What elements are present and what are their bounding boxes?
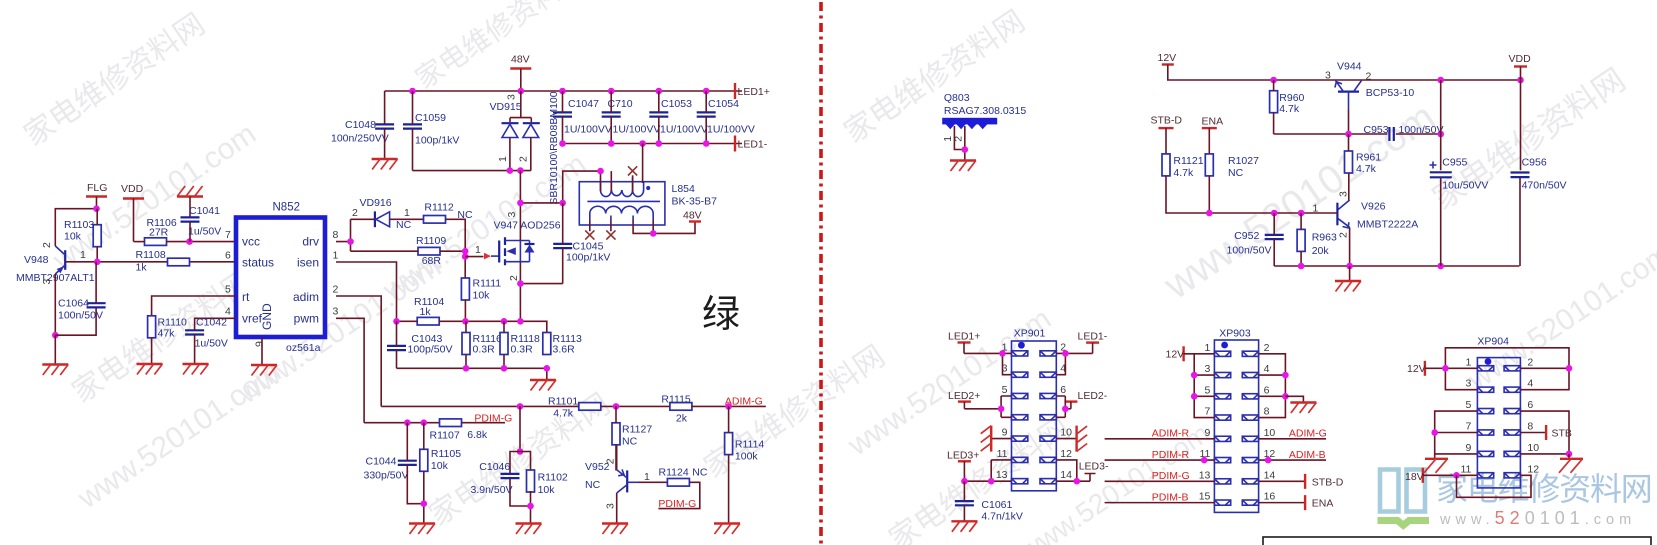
- svg-text:13: 13: [1199, 469, 1211, 481]
- node V948 base junction: [94, 259, 101, 266]
- capacitor C1059: [403, 112, 459, 147]
- svg-text:VDD: VDD: [121, 183, 144, 195]
- ground below V952: [602, 524, 628, 535]
- svg-text:12V: 12V: [1166, 349, 1185, 361]
- svg-text:5: 5: [225, 284, 231, 296]
- connector pin XP901-14: [1040, 479, 1056, 484]
- ground V926 emitter: [1335, 281, 1361, 292]
- dual diode VD915 (SBR10100): [490, 91, 540, 162]
- node C1044/R1105 bottom: [421, 500, 428, 507]
- wire C1054 stems: [705, 91, 707, 144]
- svg-text:C1044: C1044: [366, 456, 397, 468]
- svg-text:PDIM-R: PDIM-R: [1152, 449, 1190, 461]
- resistor R1115: [661, 394, 692, 425]
- capacitor C710: [602, 98, 661, 136]
- svg-text:STB: STB: [1552, 428, 1572, 440]
- svg-text:10: 10: [1264, 427, 1276, 439]
- svg-text:9: 9: [1002, 427, 1008, 439]
- 12V rail junctions: [1270, 77, 1524, 84]
- svg-text:V948: V948: [24, 254, 49, 266]
- svg-text:LED2+: LED2+: [948, 390, 980, 402]
- connector pin XP904-2: [1504, 366, 1520, 371]
- transistor V926 MMBT2222A (NPN): [1313, 191, 1419, 238]
- svg-text:R1115: R1115: [661, 394, 691, 406]
- port 12V (XP903): [1166, 346, 1185, 361]
- svg-text:2: 2: [333, 284, 339, 296]
- connector XP901 pin1 marker: [1018, 342, 1025, 349]
- svg-text:V947: V947: [494, 220, 519, 232]
- svg-text:4.7n/1kV: 4.7n/1kV: [981, 511, 1022, 523]
- connector pin XP901-6: [1040, 393, 1056, 398]
- svg-text:100p/1kV: 100p/1kV: [566, 252, 610, 264]
- svg-text:7: 7: [1205, 406, 1211, 418]
- svg-text:6: 6: [1264, 384, 1270, 396]
- connector pin XP901-8: [1040, 415, 1056, 420]
- power port 48V (transformer): [683, 210, 702, 222]
- svg-text:16: 16: [1264, 491, 1276, 503]
- svg-text:STB-D: STB-D: [1312, 476, 1344, 488]
- node ADIM-B dot: [1265, 457, 1272, 464]
- node primary return: [650, 230, 657, 237]
- svg-text:10k: 10k: [431, 460, 449, 472]
- connector pin XP903-15: [1214, 500, 1230, 505]
- wire N852 pin9 ground stem: [261, 337, 263, 364]
- capacitor C1042: [185, 317, 228, 350]
- svg-text:家电维修资料网: 家电维修资料网: [1436, 471, 1652, 507]
- connector pin XP903-2: [1242, 351, 1258, 356]
- power port 48V: [510, 54, 531, 92]
- resistor R1105: [420, 448, 461, 472]
- resistor R1121: [1162, 154, 1204, 179]
- svg-text:68R: 68R: [422, 255, 442, 267]
- svg-text:BK-35-B7: BK-35-B7: [672, 196, 718, 208]
- connector XP904 body: [1477, 336, 1520, 488]
- svg-text:LED3-: LED3-: [1079, 461, 1109, 473]
- node XP901 pin5/7: [998, 406, 1005, 413]
- wire C1048 stem: [384, 91, 386, 124]
- svg-text:N852: N852: [273, 202, 301, 214]
- port LED3+ (XP901): [947, 450, 979, 482]
- resistor R1112: [424, 202, 454, 224]
- svg-text:12: 12: [1060, 448, 1072, 460]
- svg-text:XP901: XP901: [1014, 328, 1046, 340]
- svg-text:STB-D: STB-D: [1151, 115, 1183, 127]
- node gate junctions: [462, 248, 469, 260]
- ground below C1048: [372, 159, 398, 170]
- wire primary-top node: [563, 171, 612, 203]
- connector pin XP904-3: [1477, 387, 1493, 392]
- svg-text:3: 3: [1338, 191, 1350, 197]
- svg-text:1U/100VV: 1U/100VV: [707, 124, 755, 136]
- capacitor C952: [1227, 230, 1284, 257]
- svg-text:R1114: R1114: [735, 439, 765, 451]
- node XP904 pin7: [1431, 429, 1438, 436]
- connector pin XP904-10: [1504, 451, 1520, 456]
- wire XP901 pin12/14: [1056, 460, 1095, 481]
- svg-text:V926: V926: [1361, 201, 1386, 213]
- resistor R961: [1345, 151, 1382, 175]
- wire VD915 bottom node: [413, 170, 531, 172]
- wire sense top row: [397, 321, 547, 332]
- wire XP904 18V to pin11: [1423, 474, 1478, 476]
- net wires XP903 right: [1259, 439, 1326, 460]
- inverted ground above C1041: [177, 186, 203, 197]
- connector pin XP903-1: [1214, 351, 1230, 356]
- capacitor C1054: [697, 98, 755, 136]
- wire V948 emitter down: [54, 274, 56, 335]
- svg-text:1U/100VV: 1U/100VV: [660, 124, 708, 136]
- svg-text:C1041: C1041: [189, 205, 220, 217]
- wire row A mid: [601, 405, 670, 407]
- connector XP901 body: [1012, 328, 1057, 491]
- port STB-D (XP903): [1305, 474, 1344, 489]
- connector pin XP903-13: [1214, 479, 1230, 484]
- wire XP903 to ground: [1285, 396, 1303, 402]
- svg-text:LED1-: LED1-: [738, 139, 768, 151]
- svg-text:3: 3: [604, 503, 616, 509]
- wire C1042 bottom stem: [194, 335, 196, 364]
- wire C1048 ground stem: [384, 129, 386, 159]
- svg-text:BCP53-10: BCP53-10: [1366, 87, 1415, 99]
- capacitor C953: [1364, 124, 1444, 141]
- svg-text:NC: NC: [1228, 167, 1244, 179]
- wire V947 source node: [520, 262, 562, 322]
- svg-text:6: 6: [1060, 384, 1066, 396]
- wire R1105 stems: [423, 423, 425, 523]
- connector pin XP904-4: [1504, 387, 1520, 392]
- connector pin XP903-12: [1242, 458, 1258, 463]
- svg-text:3.9n/50V: 3.9n/50V: [471, 484, 513, 496]
- node emitter-C1064 junction: [52, 332, 59, 339]
- wire XP903 pin16 to ENA: [1259, 502, 1306, 504]
- svg-text:VD916: VD916: [360, 197, 392, 209]
- svg-text:100p/50V: 100p/50V: [408, 344, 453, 356]
- resistor R1027: [1205, 154, 1259, 179]
- connector pin XP901-2: [1040, 351, 1056, 356]
- wire V926 emitter stem: [1349, 227, 1351, 266]
- svg-text:R1102: R1102: [538, 472, 568, 484]
- wire adim pin2 to row A: [336, 296, 578, 406]
- capacitor C1047: [553, 98, 612, 136]
- transistor V948 (PNP MMBT2907ALT1): [16, 242, 95, 285]
- svg-text:5: 5: [1002, 384, 1008, 396]
- connector pin XP904-1: [1477, 366, 1493, 371]
- wire R1118 stems: [503, 321, 505, 368]
- connector pin XP903-5: [1214, 394, 1230, 399]
- svg-text:12V: 12V: [1158, 52, 1177, 64]
- svg-text:2: 2: [1338, 232, 1350, 238]
- svg-text:1: 1: [497, 156, 509, 162]
- wire C1041 bottom stem: [189, 222, 191, 242]
- wire XP904 pins 5/7/9 tie: [1435, 411, 1478, 454]
- node XP901 pin1: [999, 350, 1006, 357]
- svg-text:L854: L854: [672, 183, 696, 195]
- pin numbers XP904: [1460, 356, 1539, 475]
- svg-text:3.6R: 3.6R: [553, 344, 576, 356]
- connector pin XP904-11: [1477, 473, 1493, 478]
- connector pin XP901-13: [1012, 479, 1028, 484]
- no-connect X bottom stem 1: [585, 230, 594, 239]
- svg-text:LED1+: LED1+: [738, 86, 770, 98]
- svg-text:100n/50V: 100n/50V: [1227, 245, 1272, 257]
- resistor R1103: [64, 219, 101, 247]
- wire VD915 anode stems: [510, 138, 531, 171]
- wire R1102 bottom stem: [530, 491, 532, 523]
- svg-text:C1048: C1048: [345, 119, 376, 131]
- wire V952 collector stem: [616, 493, 618, 523]
- wire R1106 to N852 pin7: [167, 241, 237, 243]
- power port FLG: [86, 182, 107, 209]
- power port ENA: [1202, 116, 1224, 154]
- svg-text:1U/100VV: 1U/100VV: [564, 124, 612, 136]
- top rail junctions: [409, 88, 709, 95]
- resistor R963: [1297, 229, 1337, 257]
- wire XP901 pin2/4: [1056, 353, 1092, 374]
- connector pin XP904-9: [1477, 451, 1493, 456]
- svg-text:LED1+: LED1+: [948, 331, 980, 343]
- transistor V952 (NC): [585, 458, 650, 509]
- node drain: [517, 200, 566, 207]
- node 18V: [1453, 472, 1460, 479]
- connector pin XP901-1: [1012, 351, 1028, 356]
- net wires XP903 left: [1105, 439, 1215, 503]
- svg-text:V944: V944: [1337, 61, 1362, 73]
- svg-text:PDIM-G: PDIM-G: [474, 413, 512, 425]
- node XP901 pin6/8: [1062, 406, 1069, 413]
- svg-text:R1027: R1027: [1228, 155, 1259, 167]
- logo green swoosh: [1378, 521, 1430, 526]
- svg-text:10k: 10k: [538, 484, 556, 496]
- connector pin XP903-16: [1242, 500, 1258, 505]
- connector pin XP903-6: [1242, 394, 1258, 399]
- power port VDD: [121, 183, 144, 242]
- svg-text:R961: R961: [1356, 152, 1381, 164]
- pin numbers XP903: [1199, 342, 1276, 503]
- svg-text:12: 12: [1527, 463, 1539, 475]
- svg-text:C1042: C1042: [196, 317, 227, 329]
- svg-text:C1061: C1061: [981, 499, 1012, 511]
- wire FLG node to V948 collector: [55, 209, 96, 246]
- row B junctions: [404, 419, 427, 426]
- svg-text:C1054: C1054: [708, 98, 739, 110]
- svg-text:LED1-: LED1-: [1078, 331, 1108, 343]
- svg-text:8: 8: [1527, 421, 1533, 433]
- no-connect X top tap: [628, 166, 637, 175]
- svg-text:C952: C952: [1234, 230, 1259, 242]
- wire C956 column: [1519, 80, 1522, 266]
- svg-text:1: 1: [404, 207, 410, 219]
- svg-text:AOD256: AOD256: [520, 220, 560, 232]
- op-amp/controller IC N852 (oz561a): [236, 202, 325, 355]
- capacitor C1045: [553, 241, 610, 264]
- wire XP904 pin12 loop: [1457, 475, 1532, 497]
- wire isen pin1 to sense row: [336, 262, 397, 321]
- svg-text:NC: NC: [585, 479, 601, 491]
- wire row B to PDIM-G: [462, 422, 506, 424]
- svg-text:0.3R: 0.3R: [473, 344, 496, 356]
- svg-text:ENA: ENA: [1312, 498, 1334, 510]
- wire V947 drain node: [520, 171, 562, 241]
- svg-text:VDD: VDD: [1509, 53, 1532, 65]
- wire R1109 left: [351, 250, 419, 252]
- port 18V (XP904): [1405, 468, 1424, 483]
- connector pin XP901-7: [1012, 415, 1028, 420]
- port LED1-: [735, 136, 768, 152]
- svg-text:ADIM-B: ADIM-B: [1289, 449, 1326, 461]
- row A junctions: [517, 403, 620, 410]
- wire R1111 bottom stem: [464, 300, 466, 321]
- wire C1061 stems: [963, 481, 965, 521]
- LED1- rail junctions: [559, 140, 709, 147]
- svg-text:XP903: XP903: [1219, 328, 1251, 340]
- wire row A to ADIM-G: [692, 405, 766, 407]
- svg-text:9: 9: [1466, 442, 1472, 454]
- svg-text:C956: C956: [1522, 157, 1547, 169]
- svg-text:1: 1: [1205, 342, 1211, 354]
- node Q803: [962, 146, 969, 153]
- svg-text:9: 9: [254, 341, 266, 347]
- svg-text:1: 1: [333, 250, 339, 262]
- resistor R1110: [148, 316, 187, 340]
- wire 12V rail: [1168, 65, 1521, 81]
- svg-text:PDIM-B: PDIM-B: [1152, 491, 1189, 503]
- node source: [517, 280, 524, 287]
- svg-text:3: 3: [506, 94, 518, 100]
- resistor R1118: [500, 333, 540, 356]
- bottom rail junctions: [1298, 263, 1444, 270]
- wire pin5 rt to R1110: [152, 296, 236, 316]
- wire V944 base stem: [1348, 110, 1350, 134]
- wire XP904 pin8 to STB: [1520, 432, 1546, 434]
- pin numbers XP901: [996, 341, 1072, 481]
- svg-text:2: 2: [1264, 342, 1270, 354]
- wire C1059 top stem: [412, 91, 414, 123]
- svg-text:6: 6: [1527, 399, 1533, 411]
- svg-text:R1111: R1111: [473, 278, 502, 290]
- svg-text:6: 6: [225, 250, 231, 262]
- svg-text:2: 2: [518, 156, 530, 162]
- node FLG junction: [93, 205, 100, 212]
- base row junctions: [1206, 210, 1304, 217]
- ground N852 pin9: [251, 365, 277, 376]
- port STB (XP904): [1546, 425, 1572, 440]
- svg-text:10k: 10k: [473, 290, 491, 302]
- wire R1112 to right node: [446, 219, 466, 278]
- wire XP904 right ground stem: [1568, 454, 1570, 459]
- svg-text:ADIM-G: ADIM-G: [1289, 428, 1327, 440]
- svg-text:vcc: vcc: [242, 235, 260, 249]
- svg-text:R1103: R1103: [64, 219, 94, 231]
- svg-text:LED3+: LED3+: [947, 450, 979, 462]
- node C1046 top: [517, 448, 524, 455]
- capacitor C1044: [364, 456, 417, 482]
- power port 12V: [1158, 52, 1177, 65]
- wire C1059 bottom stem: [412, 129, 414, 171]
- svg-text:2: 2: [604, 458, 616, 464]
- svg-text:4.7k: 4.7k: [1279, 103, 1300, 115]
- wire C1044 stems: [407, 423, 424, 504]
- wire R1109 right: [440, 250, 465, 252]
- svg-text:14: 14: [1264, 469, 1276, 481]
- svg-text:6.8k: 6.8k: [467, 429, 488, 441]
- port ENA (XP903): [1305, 495, 1333, 510]
- wire transformer pin to LED1- rail: [642, 144, 644, 184]
- svg-text:9: 9: [1205, 427, 1211, 439]
- svg-text:8: 8: [333, 229, 339, 241]
- svg-text:R1121: R1121: [1173, 155, 1203, 167]
- svg-text:10k: 10k: [64, 231, 82, 243]
- node vcc/C1041 junction: [186, 238, 193, 245]
- wire R1127 stems: [615, 406, 617, 470]
- svg-text:14: 14: [1060, 469, 1072, 481]
- title block frame bottom right: [1263, 537, 1651, 545]
- svg-text:Q803: Q803: [944, 92, 970, 104]
- svg-text:LED2-: LED2-: [1078, 390, 1108, 402]
- wire LED1- rail: [563, 143, 743, 145]
- wire base node row: [1166, 176, 1337, 213]
- wire C952 stems: [1273, 213, 1275, 266]
- svg-text:VD915: VD915: [490, 101, 522, 113]
- svg-text:3: 3: [333, 306, 339, 318]
- diode VD916: [351, 197, 425, 231]
- resistor R1114: [725, 433, 765, 463]
- wire bottom rail: [1274, 265, 1519, 267]
- svg-text:1k: 1k: [136, 262, 148, 274]
- ground below R1110: [137, 364, 163, 375]
- resistor R1101: [548, 396, 601, 420]
- svg-text:12V: 12V: [1407, 363, 1426, 375]
- svg-text:1: 1: [1466, 356, 1472, 368]
- wire row A down to C1046 node: [519, 406, 521, 451]
- wire XP901 pin10 to ground: [1056, 438, 1076, 440]
- no-connect X bottom stem 2: [606, 230, 615, 239]
- ground XP901 pin9 (rotated): [981, 426, 992, 452]
- svg-text:R1101: R1101: [548, 396, 578, 408]
- wire R960 stems: [1273, 80, 1275, 134]
- svg-text:1: 1: [644, 471, 650, 483]
- svg-text:R1105: R1105: [431, 448, 461, 460]
- capacitor C1053: [649, 98, 708, 136]
- wire R1124 to PDIM-G: [658, 482, 699, 508]
- wire C1045 stems: [562, 203, 564, 284]
- wire C1046 branch: [510, 452, 531, 507]
- svg-text:R963: R963: [1312, 232, 1337, 244]
- svg-text:1u/50V: 1u/50V: [188, 226, 221, 238]
- svg-text:NC: NC: [396, 219, 412, 231]
- wire C1053 stems: [658, 91, 660, 144]
- ground sense network: [530, 380, 556, 391]
- pin numbers N852: [225, 229, 339, 347]
- wire XP901 pin1/3: [964, 353, 1012, 374]
- connector XP903 pin1 marker: [1221, 342, 1228, 349]
- svg-text:SBR10100\RB08BM100: SBR10100\RB08BM100: [548, 91, 560, 204]
- capacitor C1061: [955, 499, 1023, 523]
- wire drv pin8 node: [336, 219, 351, 251]
- wire C955 column: [1440, 80, 1442, 266]
- svg-text:470n/50V: 470n/50V: [1522, 180, 1567, 192]
- resistor R1102: [527, 470, 568, 496]
- node drv: [347, 238, 354, 245]
- connector pin XP903-7: [1214, 415, 1230, 420]
- svg-text:2: 2: [1527, 356, 1533, 368]
- svg-text:2k: 2k: [676, 413, 688, 425]
- svg-text:PDIM-G: PDIM-G: [1152, 470, 1190, 482]
- svg-text:XP904: XP904: [1477, 336, 1509, 348]
- svg-text:FLG: FLG: [87, 182, 107, 194]
- connector pin XP901-9: [1012, 436, 1028, 441]
- svg-text:NC: NC: [622, 436, 638, 448]
- svg-text:NC: NC: [692, 467, 708, 479]
